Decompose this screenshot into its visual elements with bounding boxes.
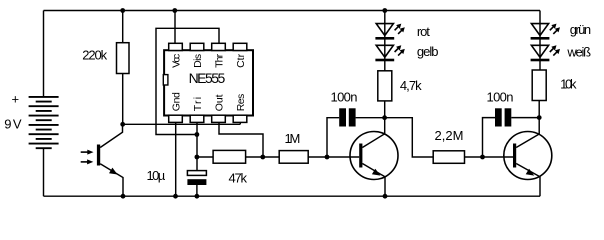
svg-text:4,7k: 4,7k xyxy=(400,78,422,93)
svg-text:rot: rot xyxy=(417,24,430,39)
svg-text:10k: 10k xyxy=(560,77,577,92)
svg-text:2,2M: 2,2M xyxy=(435,128,464,143)
svg-text:NE555: NE555 xyxy=(189,70,226,86)
svg-text:Dis: Dis xyxy=(192,54,204,68)
svg-text:Res: Res xyxy=(235,94,247,112)
svg-text:weiß: weiß xyxy=(566,44,591,59)
svg-text:10µ: 10µ xyxy=(147,168,166,183)
svg-text:100n: 100n xyxy=(487,90,514,105)
svg-text:220k: 220k xyxy=(82,48,107,63)
svg-text:+: + xyxy=(12,92,20,107)
svg-text:Thr: Thr xyxy=(213,53,225,68)
svg-text:Tri: Tri xyxy=(192,97,204,111)
svg-text:gelb: gelb xyxy=(417,44,439,59)
svg-text:Ctr: Ctr xyxy=(235,53,247,68)
svg-text:1M: 1M xyxy=(285,131,301,146)
svg-text:Gnd: Gnd xyxy=(170,92,182,111)
svg-text:9 V: 9 V xyxy=(4,117,22,132)
svg-text:grün: grün xyxy=(570,22,591,37)
svg-text:47k: 47k xyxy=(229,171,248,186)
svg-text:Out: Out xyxy=(213,94,225,111)
svg-text:100n: 100n xyxy=(331,90,358,105)
svg-text:Vcc: Vcc xyxy=(170,54,182,68)
